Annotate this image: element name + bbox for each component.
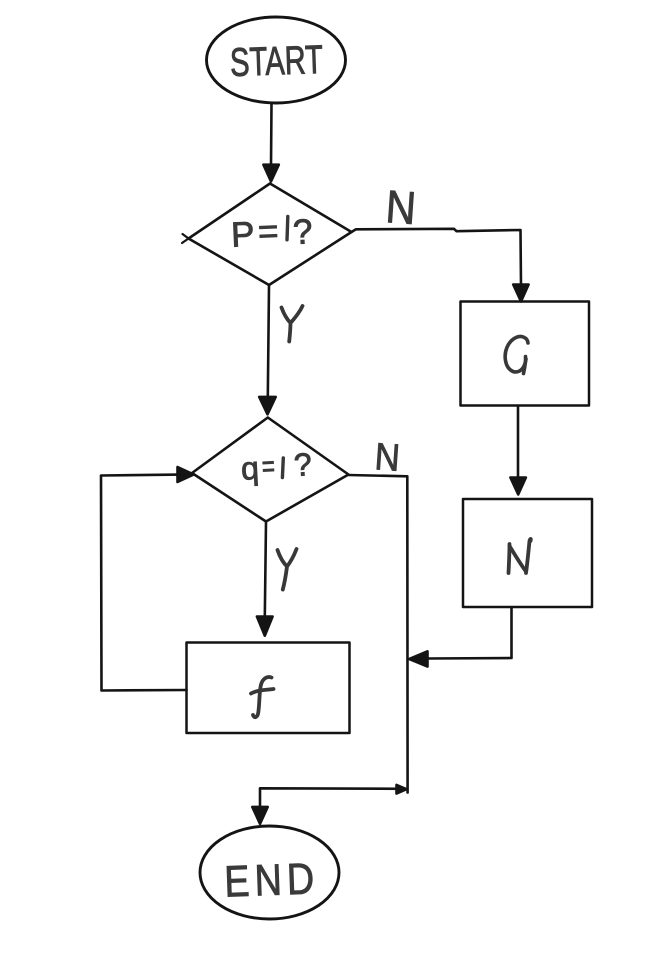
overshoot tick at P diamond left vertex <box>182 234 189 243</box>
process box f <box>187 643 350 734</box>
label Y handwritten on P diamond branch <box>282 306 303 342</box>
svg-text:?: ? <box>293 446 313 483</box>
wire START to P diamond <box>270 104 273 166</box>
arrowhead into N box <box>510 478 526 495</box>
label Y handwritten on q diamond branch <box>278 549 297 590</box>
svg-text:?: ? <box>292 212 313 252</box>
decision q=1? <box>192 418 349 522</box>
terminal END <box>200 826 339 919</box>
arrowhead into q diamond <box>259 397 276 414</box>
svg-text:=: = <box>257 212 279 252</box>
wire q diamond Y branch to f box <box>265 522 266 617</box>
svg-text:=: = <box>261 450 276 484</box>
svg-text:START: START <box>229 38 323 85</box>
arrowhead into f box <box>257 617 273 636</box>
small arrowhead at bottom junction <box>397 785 407 794</box>
terminal START <box>207 17 346 103</box>
label G handwritten <box>505 337 528 372</box>
arrowhead pointing right into q diamond <box>178 467 194 482</box>
svg-text:N: N <box>384 180 418 234</box>
decision P=1? <box>189 184 352 286</box>
wire q diamond N branch down the right side <box>349 475 408 793</box>
label N handwritten <box>509 544 510 573</box>
arrowhead into G box <box>513 285 528 302</box>
wire N box to junction <box>428 608 512 659</box>
arrowhead into END <box>252 807 267 824</box>
wire P diamond N branch to G box <box>352 229 522 286</box>
svg-text:N: N <box>373 436 401 480</box>
wire P diamond Y branch to q diamond <box>268 286 269 398</box>
bar of 1 in P=1? <box>285 217 289 240</box>
arrowhead pointing left into vertical line <box>409 651 427 666</box>
arrowhead into P diamond <box>263 165 278 182</box>
svg-text:P: P <box>230 215 255 255</box>
process box G <box>461 302 590 406</box>
wire G box to N box <box>517 407 520 480</box>
process box N <box>463 499 592 607</box>
svg-text:END: END <box>223 854 320 906</box>
svg-text:q: q <box>240 450 260 487</box>
label f handwritten <box>253 677 272 717</box>
bar of 1 in q=1? <box>281 458 285 478</box>
loop wire from f box back to q diamond <box>101 475 187 691</box>
wire bottom horizontal to END drop <box>260 788 407 808</box>
